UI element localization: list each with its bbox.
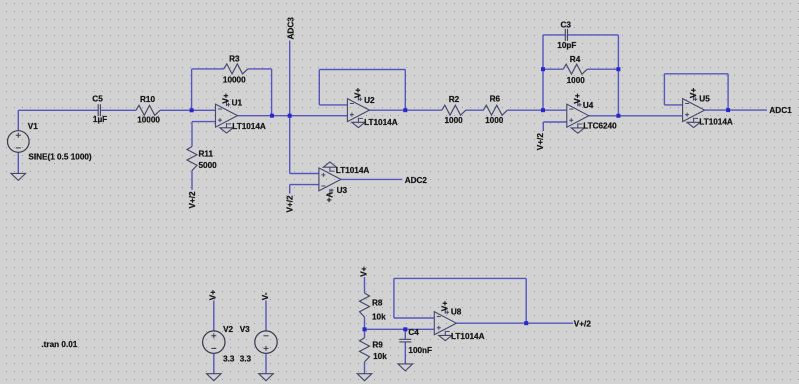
wire U3 in- down to V+/2 flag — [289, 185, 291, 194]
svg-text:V+/2: V+/2 — [574, 319, 592, 328]
wire U5 loop top — [664, 73, 728, 75]
node D junction — [403, 108, 407, 112]
svg-text:U3: U3 — [337, 186, 348, 195]
wire R3 top left — [192, 68, 224, 70]
wire R4 row right — [587, 68, 618, 70]
node B junction — [270, 114, 274, 118]
wire C3 loop left — [542, 35, 544, 110]
node R4 right junction — [616, 67, 620, 71]
svg-text:U1: U1 — [232, 99, 243, 108]
resistor R4 — [563, 64, 587, 74]
svg-text:LT1014A: LT1014A — [699, 117, 733, 126]
svg-text:ADC1: ADC1 — [769, 106, 792, 115]
svg-text:V+: V+ — [573, 93, 582, 103]
svg-text:V+: V+ — [360, 266, 369, 276]
wire U3 in- left — [290, 184, 319, 186]
ground below R9 — [357, 374, 372, 381]
wire U2 loop top — [319, 69, 405, 71]
wire R11 to V+/2 flag — [191, 171, 193, 190]
wire U2 loop right — [404, 70, 406, 111]
wire U2 in- — [319, 104, 347, 106]
node E junction — [541, 108, 545, 112]
voltage source V2 — [203, 331, 225, 353]
wire C3 top right — [568, 34, 619, 36]
svg-text:V+: V+ — [689, 88, 698, 98]
wire R4 row left — [543, 68, 563, 70]
wire U1 output row to U2 in+ — [238, 115, 348, 117]
capacitor C5 — [98, 104, 100, 116]
svg-text:10k: 10k — [373, 352, 387, 361]
wire U8 out to V+/2 flag — [456, 322, 573, 324]
svg-text:R3: R3 — [229, 54, 240, 63]
node J junction — [524, 321, 528, 325]
wire V3 top lead — [265, 301, 267, 331]
ground below C4 — [398, 364, 413, 371]
svg-text:U8: U8 — [451, 307, 462, 316]
svg-text:LTC6240: LTC6240 — [583, 122, 617, 131]
wire U5 loop right — [727, 74, 729, 110]
svg-text:V+: V+ — [354, 88, 363, 98]
svg-text:C5: C5 — [92, 95, 103, 104]
resistor R3 — [224, 64, 248, 74]
svg-text:5000: 5000 — [199, 161, 218, 170]
svg-text:V3: V3 — [240, 325, 250, 334]
wire U2 loop left — [318, 70, 320, 105]
svg-text:1000: 1000 — [485, 116, 504, 125]
wire node C down — [289, 116, 291, 174]
wire C3 loop right — [617, 35, 619, 116]
svg-text:10k: 10k — [372, 313, 386, 322]
svg-text:U2: U2 — [364, 96, 375, 105]
svg-text:1000: 1000 — [445, 116, 464, 125]
node C junction — [288, 114, 292, 118]
wire node H to U8 in+ — [365, 328, 435, 330]
wire V3 bottom to ground — [265, 353, 267, 373]
svg-text:10000: 10000 — [137, 116, 160, 125]
wire U8 in- — [394, 317, 434, 319]
node A junction — [190, 108, 194, 112]
wire U4 in+ left — [543, 121, 567, 123]
svg-text:.tran 0.01: .tran 0.01 — [41, 340, 77, 349]
wire V1 to C5 — [18, 109, 98, 111]
wire U3 output to ADC2 — [341, 178, 402, 180]
resistor R8 — [360, 293, 370, 317]
svg-text:1µF: 1µF — [93, 115, 107, 124]
svg-text:LT1014A: LT1014A — [364, 118, 398, 127]
svg-text:3.3: 3.3 — [240, 355, 252, 364]
svg-text:10pF: 10pF — [557, 41, 576, 50]
wire node A up to R3 — [191, 69, 193, 110]
wire U8 loop left — [393, 278, 395, 318]
op-amp U3 (mirrored) — [319, 162, 341, 196]
wire U4 in+ down to V+/2 flag — [542, 122, 544, 131]
wire R3 top right — [248, 68, 272, 70]
svg-text:V+: V+ — [324, 192, 333, 202]
resistor R9 — [360, 338, 370, 362]
wire U2 out to R2 — [369, 109, 441, 111]
svg-text:C4: C4 — [408, 328, 419, 337]
capacitor C4 — [399, 339, 411, 342]
svg-text:V1: V1 — [28, 122, 38, 131]
wire node H to R9 — [364, 329, 366, 338]
svg-text:1000: 1000 — [567, 76, 586, 85]
node G junction — [726, 108, 730, 112]
svg-text:100nF: 100nF — [408, 346, 432, 355]
op-amp U5 — [683, 94, 705, 128]
voltage source V1 — [7, 131, 29, 153]
svg-text:R10: R10 — [140, 95, 155, 104]
wire V2 top lead — [213, 301, 215, 331]
svg-text:3.3: 3.3 — [223, 355, 235, 364]
wire node to R11 — [191, 122, 193, 147]
wire V2 bottom to ground — [213, 353, 215, 373]
svg-text:V+: V+ — [441, 301, 450, 311]
svg-text:V+: V+ — [209, 290, 218, 300]
node I junction — [403, 327, 407, 331]
svg-text:V+/2: V+/2 — [188, 191, 197, 209]
resistor R2 — [442, 105, 466, 115]
node F junction — [616, 114, 620, 118]
ground below V1 — [11, 173, 26, 180]
wire V1 top lead — [17, 110, 19, 131]
svg-text:V+/2: V+/2 — [286, 195, 295, 213]
capacitor C3 — [565, 29, 567, 41]
ground below V2 — [207, 374, 222, 381]
wire ADC3 drop to node C — [289, 41, 291, 116]
wire R3 right drop to U1 output — [271, 69, 273, 116]
op-amp U4 — [567, 99, 589, 133]
svg-text:LT1014A: LT1014A — [336, 166, 370, 175]
ground below V3 — [259, 374, 274, 381]
wire R10 to U1 in- through node A — [160, 109, 216, 111]
wire U5 loop left — [663, 74, 665, 105]
svg-text:C3: C3 — [561, 21, 572, 30]
svg-text:R6: R6 — [490, 95, 501, 104]
wire U5 out to ADC1 — [705, 109, 767, 111]
svg-text:V+/2: V+/2 — [536, 133, 545, 151]
svg-text:R9: R9 — [372, 341, 383, 350]
wire R8 to node H — [364, 317, 366, 329]
svg-text:V2: V2 — [223, 325, 233, 334]
wire C5 to R10 — [100, 109, 136, 111]
svg-text:U5: U5 — [699, 94, 710, 103]
svg-text:R2: R2 — [449, 95, 460, 104]
svg-text:LT1014A: LT1014A — [451, 332, 485, 341]
svg-text:SINE(1 0.5 1000): SINE(1 0.5 1000) — [28, 152, 92, 161]
wire U1 in+ stub — [192, 121, 216, 123]
svg-text:LT1014A: LT1014A — [232, 122, 266, 131]
svg-text:R8: R8 — [372, 298, 383, 307]
resistor R10 — [136, 105, 160, 115]
wire U8 loop right — [525, 278, 527, 323]
wire R9 to ground — [364, 362, 366, 374]
op-amp U8 — [434, 307, 456, 341]
svg-text:V+: V+ — [222, 93, 231, 103]
svg-text:U4: U4 — [583, 101, 594, 110]
svg-text:V-: V- — [261, 292, 270, 300]
wire R6 to U4 in- — [507, 109, 567, 111]
voltage source V3 — [255, 331, 277, 353]
wire to U3 in+ — [290, 173, 319, 175]
wire U8 loop top — [394, 277, 526, 279]
svg-text:R11: R11 — [199, 150, 214, 159]
wire V+ to R8 — [364, 277, 366, 293]
wire C4 bottom to ground — [404, 342, 406, 364]
node H junction — [363, 327, 367, 331]
node R4 left junction — [541, 67, 545, 71]
wire V1 bottom to ground — [17, 152, 19, 173]
svg-text:10000: 10000 — [223, 76, 246, 85]
wire C4 top lead — [404, 329, 406, 339]
svg-text:R4: R4 — [570, 55, 581, 64]
svg-text:ADC2: ADC2 — [405, 176, 428, 185]
wire R2 to R6 — [466, 109, 484, 111]
resistor R11 — [187, 147, 197, 171]
wire C3 top left — [543, 34, 565, 36]
wire U5 in- — [664, 104, 682, 106]
resistor R6 — [483, 105, 507, 115]
svg-text:ADC3: ADC3 — [287, 17, 296, 40]
op-amp U2 — [347, 94, 369, 128]
op-amp U1 — [216, 99, 238, 133]
wire U4 out to U5 in+ — [589, 115, 683, 117]
